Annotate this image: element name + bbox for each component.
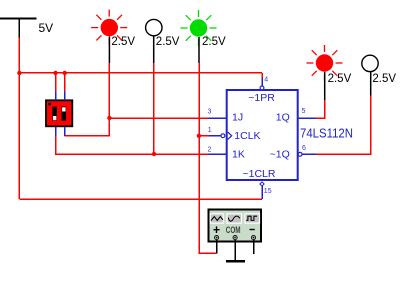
pin 1 clock bubble bbox=[221, 134, 225, 138]
svg-text:4: 4 bbox=[264, 76, 268, 83]
XFG minus sign bbox=[250, 229, 255, 231]
svg-text:~1PR: ~1PR bbox=[248, 92, 275, 104]
pin 1 stub 1CLK bbox=[209, 135, 221, 137]
lamp X1 red lit body bbox=[101, 19, 118, 36]
XFG COM lead bbox=[234, 240, 236, 261]
junction dot DIP lead A / top rail bbox=[53, 71, 57, 75]
pin 15 diamond ~1CLR bbox=[260, 182, 264, 186]
svg-text:COM: COM bbox=[226, 225, 241, 235]
junction dot lamp X1 / 1J wire bbox=[107, 116, 111, 120]
DIP switch slider B bbox=[62, 107, 67, 121]
DIP pin stub top-right bbox=[64, 92, 66, 101]
DIP switch body bbox=[46, 100, 72, 126]
wire DIP top lead right red bbox=[64, 73, 66, 92]
svg-text:2.5V: 2.5V bbox=[202, 36, 226, 48]
svg-text:1K: 1K bbox=[232, 148, 245, 160]
XFG sine wave button bbox=[227, 214, 242, 223]
svg-text:~1Q: ~1Q bbox=[270, 148, 290, 160]
DIP switch slider A nub bbox=[53, 116, 57, 120]
wire lamp X1 red vertical bbox=[108, 63, 110, 118]
wire top 5V rail horizontal bbox=[19, 72, 262, 74]
lamp X2 pin stub bbox=[153, 36, 155, 63]
XFG triangle wave button bbox=[210, 214, 223, 223]
pin 4 bubble ~1PR bbox=[260, 86, 264, 90]
XFG plus sign bbox=[214, 226, 220, 233]
lamp X3 pin stub bbox=[198, 37, 200, 63]
DIP pin stub bottom-left bbox=[55, 126, 57, 136]
pin 2 stub 1K bbox=[209, 153, 227, 155]
ground bbox=[226, 260, 245, 263]
svg-text:74LS112N: 74LS112N bbox=[300, 126, 353, 141]
VCC pin stub bbox=[18, 19, 20, 38]
lamp X3 green lit body bbox=[190, 19, 207, 36]
svg-text:~1CLR: ~1CLR bbox=[243, 168, 276, 180]
clock triangle 1CLK bbox=[228, 132, 232, 139]
wire lamp X3 / 1CLK vertical to function generator bbox=[199, 63, 217, 253]
junction dot lamp X3 / 1CLK wire bbox=[197, 134, 201, 138]
junction dot DIP lead B / top rail bbox=[62, 71, 66, 75]
lamp X5 body unlit bbox=[362, 55, 378, 71]
pin 5 stub 1Q bbox=[298, 117, 317, 119]
lamp X5 pin stub bbox=[370, 72, 372, 96]
op IC U1 74LS112N body bbox=[227, 90, 298, 180]
svg-text:3: 3 bbox=[208, 109, 212, 116]
wire 1CLK pin1 stub red bbox=[199, 135, 209, 137]
pin 15 stub ~1CLR bbox=[261, 186, 263, 200]
wire ~1PR drop red part bbox=[261, 73, 263, 78]
XFG terminal minus bbox=[251, 236, 255, 240]
XFG terminal COM bbox=[233, 236, 237, 240]
svg-text:5: 5 bbox=[301, 108, 305, 115]
DIP pin stub top-left bbox=[55, 92, 57, 101]
wire DIP left-bottom to 1K net bbox=[56, 136, 209, 154]
power supply VCC 5V bar bbox=[0, 18, 37, 20]
wire DIP top lead left red bbox=[55, 73, 57, 92]
DIP switch slider B nub bbox=[62, 107, 66, 111]
wire DIP right-bottom to 1J net bbox=[65, 118, 110, 136]
svg-text:2.5V: 2.5V bbox=[111, 36, 135, 48]
lamp X3 green lit rays bbox=[181, 10, 217, 46]
DIP switch pin1 dot bbox=[48, 103, 51, 106]
XFG terminal plus bbox=[215, 236, 219, 240]
svg-text:6: 6 bbox=[302, 145, 306, 152]
wire lamp X2 red vertical bbox=[153, 63, 155, 154]
svg-text:1: 1 bbox=[208, 127, 212, 134]
DIP switch slider A bbox=[52, 107, 57, 121]
lamp X4 pin stub bbox=[324, 72, 326, 100]
pin 6 bubble ~1Q bbox=[298, 152, 302, 156]
svg-text:2.5V: 2.5V bbox=[156, 36, 180, 48]
lamp X4 red lit rays bbox=[307, 45, 343, 81]
wire ~1Q pin6 to lamp X5 bbox=[317, 96, 371, 155]
wire 5V rail vertical bbox=[18, 37, 20, 199]
pin 6 stub ~1Q bbox=[302, 153, 317, 155]
lamp X1 pin stub bbox=[108, 37, 110, 64]
svg-text:1J: 1J bbox=[232, 112, 243, 124]
junction dot lamp X2 / 1K wire bbox=[152, 152, 156, 156]
lamp X4 red lit body bbox=[316, 54, 333, 71]
XFG minus lead bbox=[253, 240, 255, 254]
svg-text:2.5V: 2.5V bbox=[372, 73, 396, 85]
svg-text:5V: 5V bbox=[39, 21, 54, 35]
svg-text:1CLK: 1CLK bbox=[234, 130, 260, 142]
junction dot 5V rail / top rail bbox=[17, 71, 21, 75]
lamp X1 red lit rays bbox=[91, 10, 127, 46]
wire 1J horizontal pin3 bbox=[109, 117, 208, 119]
svg-text:15: 15 bbox=[264, 188, 272, 195]
XFG plus lead bbox=[216, 240, 218, 254]
DIP pin stub bottom-right bbox=[64, 126, 66, 136]
XFG square wave button bbox=[245, 214, 260, 223]
svg-text:1Q: 1Q bbox=[276, 112, 290, 124]
function generator XFG body bbox=[209, 210, 262, 242]
lamp X2 body unlit bbox=[146, 19, 162, 35]
svg-text:2.5V: 2.5V bbox=[328, 73, 352, 85]
pin 4 stub ~1PR bbox=[261, 78, 263, 86]
wire bottom 5V rail to ~1CLR bbox=[19, 198, 262, 200]
wire 1Q pin5 to lamp X4 bbox=[317, 100, 325, 118]
pin 3 stub 1J bbox=[209, 117, 227, 119]
svg-text:2: 2 bbox=[208, 147, 212, 154]
